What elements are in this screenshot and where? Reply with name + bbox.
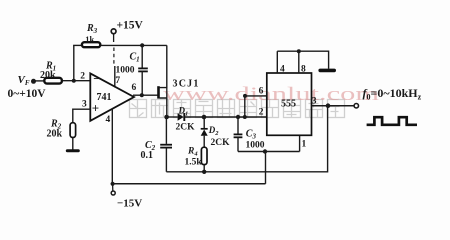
wire pin4 down: [111, 109, 113, 184]
wire C3 bottom to pin1: [238, 151, 300, 153]
svg-text:+15V: +15V: [117, 20, 144, 32]
svg-text:3: 3: [82, 99, 87, 109]
capacitor C3: [237, 117, 239, 134]
svg-text:−: −: [93, 71, 100, 86]
node: input terminal VF: [31, 79, 36, 84]
svg-text:7: 7: [115, 76, 120, 86]
svg-text:2: 2: [259, 107, 264, 117]
wire feedback vertical: [73, 45, 75, 80]
terminal +15V: [111, 29, 116, 34]
wire top rail left: [73, 44, 82, 46]
wire pin3 output: [312, 105, 355, 107]
wire minus rail riser: [265, 152, 267, 184]
wire pin6 stub: [245, 95, 267, 97]
wire top rail right: [101, 44, 167, 46]
wire pin4 up: [276, 51, 278, 73]
node R4 bottom junction: [202, 170, 206, 174]
node pin8 junction: [297, 49, 301, 53]
node pin2 vertical junction bottom: [243, 115, 247, 119]
resistor R2: [70, 123, 76, 138]
wire pin6 to pin2 vertical: [244, 96, 246, 117]
svg-text:1: 1: [302, 140, 307, 150]
svg-text:0~+10V: 0~+10V: [8, 88, 47, 100]
node junction pin2: [72, 79, 76, 83]
node minus15 junction: [111, 182, 115, 186]
wire top reset rail: [277, 51, 328, 69]
wire R4 bottom: [203, 165, 205, 172]
ground top right: [318, 69, 336, 73]
svg-text:6: 6: [132, 83, 137, 93]
wire minus15 rail: [112, 183, 266, 185]
node C3 top junction: [236, 115, 240, 119]
transistor drain wire: [160, 45, 167, 87]
node source junction: [164, 115, 169, 120]
potentiometer R3: [82, 42, 100, 47]
svg-text:20k: 20k: [40, 70, 56, 81]
wire pin8 up: [298, 51, 300, 73]
IC U2 555 box: [267, 73, 312, 135]
svg-text:555: 555: [281, 98, 296, 109]
svg-text:4: 4: [106, 115, 111, 125]
node output junction: [326, 103, 331, 108]
svg-text:1.5k: 1.5k: [185, 158, 203, 168]
watermark gray CJK row: [130, 100, 345, 118]
capacitor C1: [141, 45, 143, 67]
svg-text:2: 2: [80, 71, 85, 81]
wire R2 to ground: [72, 138, 74, 151]
svg-text:2CK: 2CK: [176, 123, 196, 133]
svg-text:20k: 20k: [47, 129, 63, 140]
wire R1 to inverting node: [63, 80, 90, 82]
svg-text:3: 3: [312, 97, 317, 107]
svg-text:f0=0~10kHz: f0=0~10kHz: [363, 86, 422, 102]
terminal output: [354, 104, 358, 108]
svg-text:3CJ1: 3CJ1: [173, 78, 200, 89]
resistor R1: [44, 78, 62, 84]
svg-text:1k: 1k: [85, 34, 94, 44]
node C1 top junction: [140, 43, 144, 47]
wire pin3 input: [73, 109, 91, 123]
wire VF to R1: [35, 80, 45, 82]
wire +15V dashed to pin7: [113, 48, 115, 67]
wire op-amp output: [133, 94, 158, 96]
svg-text:0.1: 0.1: [141, 150, 154, 161]
node ground drop junction: [263, 149, 267, 153]
node pin6 vertical junction top: [243, 94, 247, 98]
waveform square wave: [367, 117, 417, 125]
svg-text:6: 6: [259, 86, 264, 96]
transistor source wire: [160, 98, 167, 117]
svg-text:2CK: 2CK: [211, 138, 231, 148]
svg-text:8: 8: [301, 65, 306, 75]
ground below R2: [66, 149, 80, 152]
node D2 top junction: [202, 115, 207, 120]
transistor channel vertical: [166, 88, 168, 98]
svg-text:+: +: [92, 101, 99, 116]
wire +15V down solid: [113, 34, 115, 42]
diode D1: [178, 113, 184, 121]
svg-text:1000: 1000: [116, 66, 135, 76]
svg-text:−15V: −15V: [117, 197, 142, 209]
node output-C1 junction: [140, 93, 144, 97]
terminal -15V: [112, 184, 114, 191]
transistor Q1 3CJ1 gate bar: [157, 86, 160, 98]
wire output feedback rail: [166, 106, 327, 172]
resistor R4: [201, 147, 207, 164]
op-amp U1 741 triangle: [90, 73, 134, 120]
diode D2: [203, 117, 205, 129]
wire pin7 stub: [114, 66, 116, 88]
wire pin1 up: [299, 135, 301, 151]
wire node A left: [167, 116, 178, 118]
svg-text:1000: 1000: [246, 141, 265, 151]
wire node A right: [184, 116, 266, 118]
capacitor C2: [165, 117, 167, 144]
svg-text:4: 4: [280, 65, 285, 75]
